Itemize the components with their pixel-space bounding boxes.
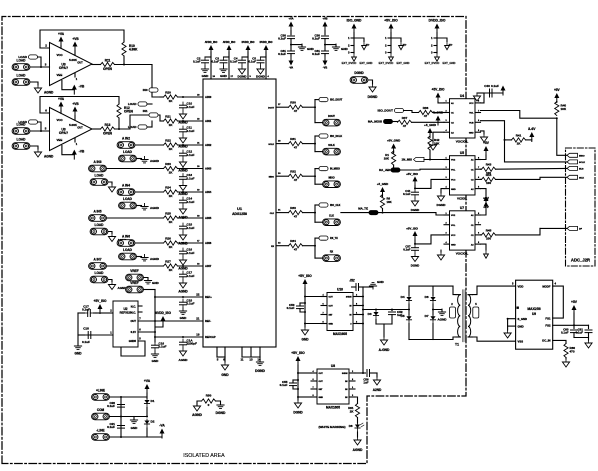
power flag +5V_ISO U10 [303, 279, 308, 289]
IC U8 MAX1605 [317, 369, 349, 404]
svg-text:GND: GND [329, 324, 334, 326]
svg-text:VCC: VCC [57, 118, 64, 122]
IC U2 voltage reference REF3125 [113, 301, 138, 347]
svg-text:22: 22 [196, 293, 200, 297]
wire analog input row AIN6 [136, 242, 164, 244]
resistor R11 OPEN (output) [101, 62, 115, 66]
svg-text:AIN2: AIN2 [205, 143, 212, 147]
resistor R13 OPEN (output) [101, 127, 115, 131]
connector J9b AIN4 gnd jack [119, 202, 137, 209]
svg-text:2200pF: 2200pF [187, 342, 198, 346]
svg-text:DGND: DGND [293, 411, 303, 415]
svg-text:U8: U8 [331, 364, 335, 368]
svg-text:LOAD: LOAD [18, 120, 27, 124]
svg-text:-VA: -VA [289, 66, 293, 70]
svg-text:GND: GND [152, 281, 160, 285]
svg-text:U7: U7 [460, 206, 464, 210]
header pin tag SCLK [567, 160, 578, 164]
op-amp U3A NC stub [74, 73, 76, 77]
svg-text:CLK: CLK [270, 213, 275, 215]
svg-text:AVDD_ISO: AVDD_ISO [155, 311, 171, 315]
wire analog input row AIN4 [136, 191, 164, 193]
svg-text:N.C.: N.C. [131, 311, 137, 315]
svg-text:AGND: AGND [192, 413, 202, 417]
svg-text:LOAD: LOAD [17, 138, 27, 142]
svg-text:0.1uF: 0.1uF [82, 340, 90, 344]
net tag input bias 2 [29, 120, 38, 124]
jumper header JP +5V_ISO [390, 33, 392, 54]
svg-text:S_GND: S_GND [518, 317, 528, 321]
wire U4 VCB to SCLK net [481, 121, 567, 162]
svg-text:AIN1: AIN1 [205, 119, 212, 123]
wire U4 VCC decoupling [481, 93, 504, 103]
ground row AIN2 jack [137, 158, 142, 160]
wire ground tie right [216, 401, 221, 404]
svg-text:REF+: REF+ [205, 295, 212, 299]
svg-text:GND: GND [451, 189, 456, 191]
svg-text:MI.S: MI.S [579, 168, 584, 170]
svg-text:RX: RX [330, 251, 334, 254]
wire row AIN6 to U1 [178, 242, 204, 244]
wire U1 bottom ground pins right trio [241, 347, 243, 357]
resistor R41 to 3.4V [512, 138, 526, 142]
svg-text:DGND: DGND [411, 264, 420, 268]
capacitor C50 U10 input [300, 302, 305, 304]
svg-text:DGND: DGND [255, 369, 265, 373]
svg-text:+5V_ISO: +5V_ISO [432, 88, 445, 92]
svg-text:MA_TE: MA_TE [358, 207, 368, 211]
wire U8 pin1 to bus [355, 372, 363, 374]
svg-text:R30: R30 [290, 101, 296, 105]
down arrow DVDD_ISO [435, 53, 440, 61]
svg-text:VCC: VCC [469, 103, 474, 105]
resistor R20 on row AIN0 [164, 95, 178, 99]
capacitor C42 U6 VCC [412, 245, 419, 254]
svg-text:SCLK: SCLK [579, 162, 585, 164]
svg-text:ISO_GND: ISO_GND [347, 19, 362, 23]
op-amp U3A -supply arrow [72, 85, 77, 95]
resistor R27 on row AIN7 [164, 264, 178, 268]
IC U5 digital isolator [450, 156, 476, 195]
wire row AIN2 to U1 [178, 144, 204, 146]
connector J10b AIN5 gnd jack [90, 228, 108, 235]
svg-text:0.1uF: 0.1uF [278, 52, 286, 56]
wire MISO to ADC header [557, 118, 567, 155]
svg-text:D7: D7 [425, 314, 429, 318]
wire U2 OUT to bus [138, 320, 155, 322]
wire +5V_ISO to U6 VCC [415, 235, 444, 244]
svg-text:VCXXL: VCXXL [457, 197, 467, 201]
wire U9 MODF loop [553, 286, 564, 318]
svg-text:DVDD_ISO: DVDD_ISO [242, 41, 255, 44]
svg-text:R13: R13 [105, 123, 111, 127]
svg-text:R36: R36 [423, 106, 429, 110]
power flag +VA diode stack [145, 384, 150, 394]
svg-text:GND: GND [319, 397, 324, 399]
net tag LOAD op-amp2 [138, 125, 147, 129]
svg-text:0.1uF: 0.1uF [230, 60, 238, 64]
resistor R37 U4 pin3 [398, 120, 412, 124]
diode D6 bridge [430, 296, 435, 305]
svg-text:+VB: +VB [322, 17, 327, 21]
wire ground tie left [197, 401, 202, 405]
svg-text:R20: R20 [165, 91, 171, 95]
power flag 3.4V [529, 132, 534, 142]
wire analog input row AIN7 [107, 265, 164, 267]
svg-text:0.1uF: 0.1uF [187, 153, 195, 157]
power flag AVDD_ISO [209, 45, 214, 55]
connector box ADC_J2R (dash-dot) [566, 148, 596, 266]
svg-text:R44: R44 [486, 173, 492, 177]
capacitor C55 U8 input [293, 379, 298, 381]
connector jack RX [315, 257, 322, 259]
svg-text:VOL: VOL [451, 169, 456, 171]
svg-text:100: 100 [486, 237, 491, 241]
ground U10 top cap [370, 286, 373, 288]
svg-text:SHDN: SHDN [342, 373, 348, 375]
capacitor C41 U5 VCC [412, 189, 419, 198]
wire tag to U5 pin1 [424, 159, 444, 161]
svg-text:VOL: VOL [451, 225, 456, 227]
connector jack MISO [315, 183, 322, 185]
svg-text:MISO: MISO [579, 155, 585, 157]
svg-text:47: 47 [294, 109, 298, 113]
wire U9 FS2 output [553, 324, 589, 326]
svg-text:EXT_DVDD: EXT_DVDD [342, 61, 357, 65]
svg-text:+5V: +5V [483, 141, 490, 145]
ground AGND row AIN6 [179, 257, 186, 265]
jumper header JP ISO_GND [353, 33, 355, 54]
header pin tag DF [567, 226, 578, 230]
svg-text:0.1uF: 0.1uF [187, 129, 195, 133]
svg-text:AIN3: AIN3 [205, 167, 212, 171]
resistor R22 on row AIN2 [164, 143, 178, 147]
capacitor C52 bridge [391, 310, 393, 311]
svg-text:OPEN: OPEN [103, 67, 113, 71]
svg-text:0.1uF: 0.1uF [107, 425, 115, 429]
svg-text:0.1uF: 0.1uF [187, 177, 195, 181]
connector J14 REF+ [126, 274, 144, 281]
connector jack CLK [315, 221, 322, 223]
IC U6 digital isolator [450, 211, 476, 250]
capacitor C15 row AIN5 [180, 223, 187, 232]
svg-text:C40: C40 [484, 84, 490, 88]
header pin tag MI.S [567, 166, 578, 170]
ground AGND op-amp2 [34, 149, 41, 157]
svg-text:TP: TP [403, 43, 407, 47]
svg-text:A IN7: A IN7 [94, 258, 102, 262]
svg-text:OPEN: OPEN [103, 132, 113, 136]
svg-text:4.99K: 4.99K [129, 48, 138, 52]
wire U9 ground pins [508, 318, 516, 320]
svg-text:+VB: +VB [72, 37, 79, 41]
svg-text:MODF: MODF [542, 284, 550, 288]
net tag IN_MISO to U5 [414, 157, 425, 161]
ground bridge mid [438, 309, 445, 315]
svg-text:MAX1605: MAX1605 [326, 406, 340, 410]
power flag +5V_ISO U2 [98, 304, 103, 314]
ground U6 GND [437, 252, 444, 260]
wire row AIN5 to U1 [178, 217, 204, 219]
svg-text:AIN4: AIN4 [205, 190, 212, 194]
svg-text:VOCXXL: VOCXXL [456, 252, 469, 256]
resistor R45 U6 C2 [481, 234, 482, 236]
wire J3 to op-amp2 + input [31, 130, 50, 132]
transformer T1 primary winding [458, 295, 461, 337]
connector J12 AIN7 [89, 263, 107, 270]
svg-text:0.1uF: 0.1uF [491, 84, 499, 88]
power flag U5 A2 [481, 189, 487, 196]
svg-text:VCC: VCC [451, 235, 456, 237]
connector J12b AIN7 gnd jack [90, 276, 108, 283]
connector J22 [92, 434, 110, 441]
capacitor C51 U10 top [359, 286, 364, 288]
wire U1 digital row ISO_CLK [276, 212, 289, 214]
wire J2 to ground [31, 82, 39, 85]
wire junction riser IN_MISO [314, 169, 316, 185]
svg-text:AIN7: AIN7 [205, 264, 212, 268]
svg-text:DGND: DGND [437, 203, 447, 207]
svg-text:AGND: AGND [438, 318, 448, 322]
wire row AIN7 to U1 [178, 265, 204, 267]
svg-text:+VA: +VA [58, 97, 65, 101]
svg-text:D4: D4 [401, 295, 405, 299]
ground GND cap C3 [220, 66, 227, 72]
net tag ISO_DOUT [315, 99, 319, 101]
svg-text:A IN5: A IN5 [94, 210, 102, 214]
connector J20 [92, 394, 110, 401]
ground AGND C14 [179, 348, 186, 356]
resistor R47 pullup U6 pin1 [380, 195, 384, 209]
pin marker U9 [517, 307, 519, 309]
test point arrow DVDD_ISO [437, 38, 447, 42]
capacitor C16 row AIN6 [180, 248, 187, 257]
wire transformer secondary to U9 [473, 286, 516, 295]
resistor R25 on row AIN5 [164, 216, 178, 220]
svg-text:A-GND: A-GND [379, 348, 390, 352]
capacitor C17 U2 input [94, 312, 97, 314]
svg-text:OUT: OUT [77, 127, 83, 130]
svg-text:-VA: -VA [159, 424, 165, 428]
capacitor C21 between lines [118, 425, 125, 427]
svg-text:ISO_DCLK: ISO_DCLK [330, 135, 342, 138]
svg-text:SCLK: SCLK [268, 144, 274, 146]
net tag input bias [29, 55, 38, 59]
wire op-amp1 feedback loop [40, 30, 124, 48]
power flag +5_GND U6 pin1 [380, 187, 385, 197]
svg-text:LOAD: LOAD [95, 174, 105, 178]
test point arrow +5V_ISO [391, 38, 401, 42]
ground U10 bus [301, 327, 308, 335]
ground GND U2 left [74, 343, 81, 349]
svg-text:10K: 10K [384, 157, 390, 161]
svg-text:+5V_ISO: +5V_ISO [291, 351, 305, 355]
svg-text:LOAD: LOAD [18, 55, 27, 59]
svg-text:47: 47 [294, 248, 298, 252]
ground row AIN7 jack [109, 280, 113, 282]
svg-text:VSS: VSS [518, 339, 524, 343]
wire C56 to ground [376, 373, 378, 377]
wire U1 REF- row [138, 320, 203, 322]
wire U1 bottom stem left [224, 357, 226, 362]
capacitor C61 output [588, 325, 590, 328]
ground AGND row AIN0 [179, 111, 186, 119]
transformer T1 core [462, 290, 464, 342]
svg-text:GND: GND [131, 426, 139, 430]
wire J1 to op-amp + input [31, 66, 50, 68]
capacitor C40 U4 [489, 89, 491, 97]
power flag U5 A1 [481, 155, 487, 160]
jumper header JP DVDD_ISO [436, 33, 438, 54]
svg-text:D3: D3 [368, 312, 372, 316]
op-amp U3B NC stub [74, 138, 76, 142]
svg-text:3.4V: 3.4V [528, 127, 536, 131]
resistor R46 pullup U5 pin2 [392, 151, 396, 165]
svg-text:SHDN: SHDN [346, 297, 352, 299]
svg-text:TP: TP [449, 43, 453, 47]
power flag +5V_GND U5 pin2 [391, 144, 396, 154]
connector jack SCLK [315, 151, 322, 153]
svg-text:ADC_J2R: ADC_J2R [571, 258, 590, 263]
svg-text:470: 470 [570, 350, 575, 354]
svg-text:MAX256: MAX256 [527, 307, 540, 311]
svg-text:OPEN: OPEN [124, 110, 134, 114]
LED D8 [355, 423, 360, 432]
svg-text:DGND: DGND [216, 411, 226, 415]
svg-text:LOAD: LOAD [123, 150, 133, 154]
ground U4 GND [480, 134, 487, 142]
op-amp U3A [50, 43, 93, 86]
svg-text:DGND: DGND [256, 75, 266, 79]
capacitor C13 row AIN3 [180, 174, 187, 183]
svg-text:J52: J52 [349, 279, 355, 283]
svg-text:13: 13 [249, 358, 253, 362]
power flag +5V_ISO U8 [296, 356, 301, 366]
wire U2 pin to bus [138, 331, 155, 333]
resistor R23 on row AIN3 [164, 166, 178, 170]
svg-text:0.1uF: 0.1uF [187, 302, 195, 306]
svg-text:R21: R21 [165, 115, 171, 119]
svg-text:EXT_DVDD: EXT_DVDD [379, 61, 394, 65]
svg-text:VOL: VOL [469, 113, 474, 115]
svg-text:10K: 10K [561, 107, 567, 111]
power flag +5V output [573, 313, 575, 325]
ground AGND row AIN7 [179, 280, 186, 288]
ground row AIN3 jack [109, 182, 113, 184]
svg-text:R25: R25 [165, 212, 171, 216]
svg-text:LOAD: LOAD [17, 74, 27, 78]
svg-text:47: 47 [403, 124, 407, 128]
svg-text:ISO_DOUT: ISO_DOUT [378, 109, 394, 113]
wire IN_MISO to junction [303, 175, 316, 177]
op-amp U3B +supply arrow 2 [73, 107, 78, 117]
connector jack DGND top [350, 77, 368, 84]
wire RX_TX to junction [303, 245, 316, 247]
connector J10 AIN5 [89, 215, 107, 222]
svg-text:-LINE: -LINE [96, 429, 104, 433]
resistor R44 U5 C2 [481, 178, 482, 180]
op-amp U3A +supply arrow 2 [73, 42, 78, 52]
svg-text:TP: TP [366, 43, 370, 47]
svg-text:(WHITE MARKING): (WHITE MARKING) [318, 425, 345, 429]
svg-text:GND5: GND5 [129, 339, 137, 343]
svg-text:AGND: AGND [150, 159, 160, 163]
wire analog input row AIN5 [107, 217, 164, 219]
capacitor C2 decoupling AVDD_ISO [205, 56, 211, 58]
svg-text:U5: U5 [460, 151, 464, 155]
net tag LOAD op-amp1 [138, 102, 147, 106]
op-amp U3A -supply loop [62, 81, 74, 90]
ground DGND jack [369, 80, 373, 84]
svg-text:VREF: VREF [130, 269, 138, 273]
connector J8b AIN3 gnd jack [90, 179, 108, 186]
power flag DVDD_ISO [264, 45, 269, 55]
wire U1 bottom ground pins left pair [216, 347, 218, 357]
svg-text:AGND: AGND [44, 155, 54, 159]
svg-text:DVDD_ISO: DVDD_ISO [429, 19, 446, 23]
ground C42 [411, 254, 418, 262]
svg-text:CLK: CLK [329, 215, 334, 218]
capacitor C30 +VB [322, 35, 329, 37]
svg-text:EXT_DVDD: EXT_DVDD [425, 61, 440, 65]
svg-text:VCC: VCC [57, 53, 64, 57]
resistor R61 LED [355, 404, 359, 418]
svg-text:+5_GND: +5_GND [424, 123, 437, 127]
ground row AIN6 jack [137, 256, 142, 258]
svg-text:GND: GND [451, 244, 456, 246]
svg-text:VREF: VREF [130, 281, 138, 285]
resistor R33 row ISO_CLK [289, 211, 303, 215]
wire U1 digital row RX_TX [276, 245, 289, 247]
diode D5 bridge [406, 315, 411, 324]
wire junction riser RX_TX [314, 238, 316, 258]
wire row AIN1 to U1 [178, 120, 204, 122]
wire zener cap join [376, 323, 392, 325]
capacitor C12 row AIN2 [180, 150, 187, 159]
svg-text:0.1V: 0.1V [131, 330, 137, 334]
resistor R31 row ISO_DCLK [289, 142, 303, 146]
svg-text:LOAD: LOAD [95, 223, 105, 227]
resistor R50 ground tie [202, 399, 216, 403]
wire feedback to output node [123, 56, 125, 65]
wire U1 REFCAP row [155, 336, 203, 338]
svg-text:0.1uF: 0.1uF [280, 383, 288, 387]
wire junction riser ISO_CLK [314, 205, 316, 222]
svg-text:REF-: REF- [205, 319, 211, 323]
svg-text:LOAD: LOAD [128, 125, 137, 129]
wire tag MA_TE to U6 pin1 [378, 213, 444, 215]
svg-text:DVDD_ISO: DVDD_ISO [260, 41, 273, 44]
capacitor C14 row AIN4 [180, 197, 187, 206]
svg-text:LOAD: LOAD [123, 248, 133, 252]
svg-text:DOUT: DOUT [268, 107, 275, 109]
ground AGND row AIN2 [179, 159, 186, 167]
svg-text:AIN6: AIN6 [205, 241, 212, 245]
ground U4 pin4 [429, 142, 436, 150]
connector jack DOUT [315, 122, 322, 124]
ground GND column +VB [325, 45, 336, 46]
capacitor C60 output [573, 325, 575, 328]
IC U1 ADS1258 main converter [203, 79, 276, 347]
svg-text:GND: GND [221, 373, 229, 377]
svg-text:R41: R41 [516, 133, 522, 137]
capacitor C16 ref bus [152, 342, 159, 351]
ground row AIN4 jack [137, 205, 142, 207]
resistor R30 row ISO_DOUT [289, 105, 303, 109]
svg-text:0.1uF: 0.1uF [187, 105, 195, 109]
wire analog input row AIN0 [160, 96, 164, 98]
resistor R42 pullup U5 pin1 [428, 136, 432, 150]
